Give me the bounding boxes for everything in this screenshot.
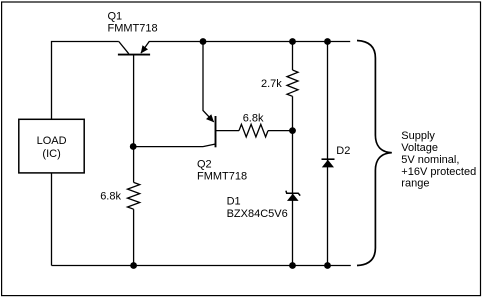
svg-text:Supply: Supply [401,130,435,142]
svg-text:D1: D1 [227,195,241,207]
svg-text:LOAD: LOAD [37,135,67,147]
svg-text:FMMT718: FMMT718 [197,171,247,183]
svg-text:2.7k: 2.7k [261,78,282,90]
svg-text:6.8k: 6.8k [100,190,121,202]
svg-text:+16V protected: +16V protected [401,166,476,178]
svg-text:6.8k: 6.8k [243,112,264,124]
svg-text:range: range [401,178,429,190]
svg-text:Q2: Q2 [197,159,212,171]
svg-text:FMMT718: FMMT718 [108,23,158,35]
svg-text:BZX84C5V6: BZX84C5V6 [227,208,288,220]
svg-text:Q1: Q1 [108,11,123,23]
svg-text:(IC): (IC) [42,148,60,160]
svg-text:5V nominal,: 5V nominal, [401,154,459,166]
svg-text:Voltage: Voltage [401,142,438,154]
svg-text:D2: D2 [336,145,350,157]
